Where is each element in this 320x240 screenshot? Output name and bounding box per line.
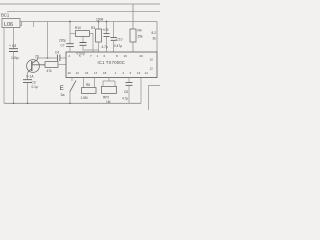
resistor R3 100k (91, 18, 104, 52)
svg-text:20: 20 (140, 54, 144, 58)
pin numbers top row (69, 54, 144, 58)
wire collector top lead (38, 57, 57, 59)
wire bottom ground bus (4, 102, 141, 104)
wire right vertical from bus to IC (156, 22, 158, 53)
capacitor C6 4.7u (122, 78, 133, 104)
svg-text:3a: 3a (61, 93, 65, 97)
resistor R10 (70, 26, 93, 52)
svg-text:+C9: +C9 (103, 28, 109, 32)
svg-text:C7: C7 (61, 43, 65, 47)
wire vertical feed at x133 (132, 4, 134, 29)
switch E 3a (60, 78, 76, 104)
svg-text:R3: R3 (91, 26, 95, 30)
wire R4 lower lead to IC pin 19 (132, 42, 134, 52)
svg-text:8.2: 8.2 (152, 31, 157, 35)
capacitor C4 (55, 51, 66, 61)
wire left ground drop (3, 28, 5, 104)
capacitor C10 0.47u (111, 22, 123, 53)
wire second bus line (7, 11, 160, 13)
capacitor C7 220p (59, 39, 74, 52)
svg-text:100μ: 100μ (11, 56, 19, 60)
capacitor 0.02u (77, 36, 99, 55)
capacitor C8 100u (9, 44, 19, 103)
svg-text:C4: C4 (55, 51, 59, 55)
wire C8 upper lead (13, 28, 15, 49)
capacitor C3 0.1u (23, 80, 38, 104)
wire base feed from bus (47, 22, 49, 59)
antenna coil block L06 / BC1 (1, 13, 20, 28)
op-amp U1 IC1 TX7000C box (66, 52, 157, 78)
svg-text:47k: 47k (47, 69, 53, 73)
svg-text:12: 12 (150, 66, 154, 70)
resistor R4 25k (130, 29, 143, 42)
svg-text:14: 14 (145, 71, 149, 75)
svg-text:4.7μ: 4.7μ (102, 45, 108, 49)
wire coil terminal stub (20, 22, 22, 26)
svg-text:16: 16 (85, 71, 89, 75)
wire stub at x33 from bus (33, 22, 35, 28)
wire output corner exiting right/bottom (149, 86, 161, 111)
svg-text:10: 10 (150, 58, 154, 62)
svg-text:13: 13 (137, 71, 141, 75)
wire top bus line B+ (0, 3, 160, 5)
node junctions bottom bus (13, 103, 15, 105)
wire pin 14 drop (140, 78, 142, 104)
svg-text:25k: 25k (138, 34, 144, 38)
svg-text:0.47μ: 0.47μ (114, 44, 122, 48)
svg-text:C6: C6 (124, 90, 128, 94)
svg-text:220p: 220p (59, 39, 66, 43)
wire emitter drop to C3 (27, 72, 29, 79)
svg-text:IC1 TX7000C: IC1 TX7000C (98, 60, 125, 65)
svg-text:-C10: -C10 (116, 37, 123, 41)
svg-text:BC1: BC1 (1, 13, 10, 18)
transistor Q1 (27, 58, 45, 72)
svg-text:17: 17 (94, 71, 98, 75)
node junction at C4 wire (47, 57, 49, 59)
svg-text:RP2: RP2 (103, 95, 109, 99)
wire third bus line (20, 21, 157, 23)
svg-text:19: 19 (124, 54, 128, 58)
svg-text:E: E (60, 85, 64, 92)
wire R10/C7 feed from bus (69, 22, 71, 44)
svg-text:10: 10 (68, 71, 72, 75)
resistor value 8.2 right edge (152, 31, 157, 41)
svg-text:R10: R10 (75, 26, 81, 30)
svg-text:+ C8: + C8 (9, 44, 16, 48)
capacitor C9 4.7u (102, 21, 110, 52)
svg-text:3k: 3k (153, 37, 157, 41)
svg-text:R6: R6 (86, 83, 90, 87)
svg-text:18: 18 (103, 71, 107, 75)
svg-text:100k: 100k (96, 18, 104, 22)
svg-text:R4: R4 (138, 29, 142, 33)
pin numbers right column (150, 58, 154, 71)
svg-text:4.7μ: 4.7μ (122, 96, 128, 100)
pin numbers bottom row (68, 71, 149, 75)
svg-text:L06: L06 (4, 22, 13, 28)
svg-text:1.5M: 1.5M (81, 96, 88, 100)
svg-text:C3: C3 (32, 80, 36, 84)
resistor 47k (45, 62, 66, 73)
svg-text:0.1μ: 0.1μ (32, 85, 38, 89)
resistor R6 1.5M (81, 78, 97, 100)
svg-text:13: 13 (76, 71, 80, 75)
potentiometer RP2 1M (102, 78, 117, 104)
